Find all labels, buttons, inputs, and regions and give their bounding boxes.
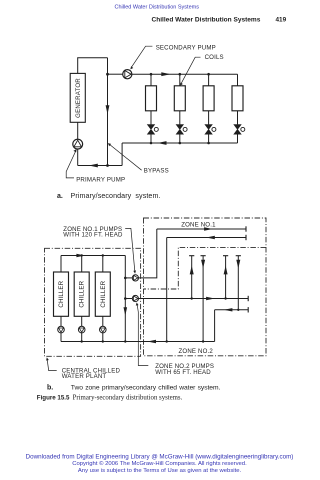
zone pump B <box>132 295 138 301</box>
coil branch 2 (wires, coil, three-way valve V2) <box>174 74 187 143</box>
node: supply tee coil 3 <box>207 73 210 76</box>
arrow: riser 2 flow down <box>201 260 205 269</box>
svg-text:Downloaded from Digital Engine: Downloaded from Digital Engineering Libr… <box>26 453 294 460</box>
arrow: plant supply flow right <box>76 254 85 257</box>
node: return header tee common pipe <box>124 340 126 342</box>
svg-text:Figure 15.5: Figure 15.5 <box>37 394 70 401</box>
svg-text:CHILLER: CHILLER <box>58 280 65 307</box>
wire: zone 1 return main <box>167 237 246 239</box>
wire: riser 3 top tick <box>223 255 228 257</box>
svg-text:Any use is subject to the Term: Any use is subject to the Terms of Use a… <box>78 468 242 474</box>
wire: zone 2 return main <box>215 309 249 311</box>
generator G <box>70 73 85 122</box>
svg-text:Primary/secondary system.: Primary/secondary system. <box>71 192 161 200</box>
chiller branch 3 (wires, chiller, pump) <box>95 256 110 342</box>
arrow: return header flow left <box>157 141 166 145</box>
node: return tee coil 3 <box>207 142 210 145</box>
wire: zone 2 riser 2 (return down) <box>202 256 204 342</box>
svg-text:ZONE NO.1: ZONE NO.1 <box>181 222 216 229</box>
arrow: zone 1 supply flow right <box>204 227 213 230</box>
zone no.1 boundary box (dash-dot) <box>144 218 267 356</box>
wire: plant return header <box>61 341 215 343</box>
node: supply header tee chiller 3 <box>102 254 104 256</box>
node: return header tee riser 2 <box>202 340 204 342</box>
node: return tee coil 1 <box>150 142 153 145</box>
arrow: bypass riser flow down <box>106 105 110 114</box>
node: riser tee pump A <box>124 277 127 280</box>
svg-text:SECONDARY PUMP: SECONDARY PUMP <box>156 44 216 51</box>
wire: zone 2 return drop to plant return <box>214 310 216 342</box>
label ZONE NO.1 PUMPS WITH 120 FT. HEAD <box>63 226 136 273</box>
central plant boundary box (dash-dot) <box>45 248 141 356</box>
arrow: bottom line flow left <box>89 164 98 168</box>
label COILS <box>180 54 224 86</box>
arrow: common pipe flow down <box>124 307 128 315</box>
secondary pump P2 <box>123 70 132 79</box>
svg-text:BYPASS: BYPASS <box>144 168 169 175</box>
label CENTRAL CHILLED WATER PLANT <box>46 357 120 379</box>
svg-text:Two zone primary/secondary chi: Two zone primary/secondary chilled water… <box>71 384 221 391</box>
node: return header tee chiller 3 <box>102 340 104 342</box>
zone no.2 boundary (dash-dot, top + left + jog) <box>144 247 267 289</box>
wire: zone 2 riser 3 (supply up) <box>225 256 227 299</box>
wire: bypass riser <box>107 58 109 166</box>
wire: pump A to zone1 supply riser <box>138 229 157 278</box>
svg-text:a.: a. <box>57 193 63 200</box>
wire: coil return header <box>122 142 237 144</box>
wire: zone 1 supply end tick <box>245 226 247 231</box>
node: supply tee coil 1 <box>150 73 153 76</box>
node: return header tee chiller 2 <box>81 340 83 342</box>
node: supply tee at riser <box>106 73 109 76</box>
svg-text:CHILLER: CHILLER <box>79 280 86 307</box>
svg-text:WITH 65 FT. HEAD: WITH 65 FT. HEAD <box>155 369 211 376</box>
primary pump P1 <box>73 139 83 149</box>
wire: riser 2 top tick <box>201 255 206 257</box>
wire: generator bottom to primary pump <box>77 122 79 139</box>
node: bottom line tee at riser <box>106 164 109 167</box>
chiller branch 1 (wires, chiller, pump) <box>54 256 69 342</box>
node: return header tee zone1 riser <box>166 340 168 342</box>
svg-text:PRIMARY PUMP: PRIMARY PUMP <box>76 177 125 184</box>
wire: zone pump A branch <box>125 277 132 279</box>
svg-text:ZONE NO.2: ZONE NO.2 <box>179 348 214 355</box>
node: zone2 supply tee riser 3 <box>224 297 226 299</box>
wire: secondary supply left segment <box>108 73 123 75</box>
wire: zone pump B branch <box>125 298 132 300</box>
wire: right leg coil return to bottom line <box>121 143 123 166</box>
label SECONDARY PUMP <box>130 44 216 69</box>
svg-text:GENERATOR: GENERATOR <box>75 78 82 118</box>
svg-text:COILS: COILS <box>205 54 224 61</box>
wire: riser 4 top tick <box>236 255 241 257</box>
zone pump A <box>132 275 138 281</box>
wire: zone 2 riser 4 (return down) <box>237 256 239 310</box>
svg-text:Chilled Water Distribution Sys: Chilled Water Distribution Systems <box>152 16 261 23</box>
wire: primary pump to bottom line <box>77 149 79 166</box>
arrow: zone 2 supply flow right <box>206 297 215 300</box>
coil branch 1 (wires, coil, three-way valve V1) <box>146 74 159 143</box>
svg-text:Chilled Water Distribution Sys: Chilled Water Distribution Systems <box>115 5 200 11</box>
label BYPASS <box>108 143 169 174</box>
wire: zone 2 return end tick <box>247 307 249 312</box>
svg-text:WITH 120 FT. HEAD: WITH 120 FT. HEAD <box>63 232 123 239</box>
arrow: plant return flow left <box>147 340 156 343</box>
wire: generator top to bypass riser <box>78 58 108 74</box>
wire: zone 1 return end tick <box>245 235 247 240</box>
arrow: riser 4 flow down <box>236 260 240 269</box>
wire: zone 1 return riser down <box>166 238 168 342</box>
wire: zone 1 supply main <box>157 228 246 230</box>
arrow: supply header flow right <box>161 72 170 76</box>
wire: zone 2 riser 1 (supply up) <box>191 256 193 299</box>
node: supply header tee chiller 2 <box>81 254 83 256</box>
wire: secondary supply header <box>132 73 238 75</box>
arrow: riser 1 flow up <box>190 266 194 275</box>
label PRIMARY PUMP <box>66 149 125 184</box>
node: riser tee pump B <box>124 297 127 300</box>
arrow: zone 2 return flow left <box>224 308 233 311</box>
node: return tee coil 2 <box>179 142 182 145</box>
wire: zone 2 supply main <box>138 298 248 300</box>
node: zone2 supply tee riser 1 <box>191 297 193 299</box>
svg-text:Copyright © 2006 The McGraw-Hi: Copyright © 2006 The McGraw-Hill Compani… <box>72 460 247 467</box>
chiller branch 2 (wires, chiller, pump) <box>74 256 89 342</box>
svg-text:b.: b. <box>47 385 53 392</box>
wire: riser 1 top tick <box>189 255 194 257</box>
node: zone2 return tee riser 4 <box>237 309 239 311</box>
wire: plant supply header <box>61 255 125 257</box>
wire: bottom return line <box>78 165 122 167</box>
svg-text:419: 419 <box>276 16 287 23</box>
wire: common pipe riser <box>124 256 126 342</box>
svg-text:WATER PLANT: WATER PLANT <box>62 373 107 380</box>
arrow: zone 1 return flow left <box>206 236 215 239</box>
coil branch 4 (wires, coil, three-way valve V4) <box>232 74 245 143</box>
svg-text:CHILLER: CHILLER <box>100 280 107 307</box>
wire: zone 2 supply end tick <box>247 296 249 301</box>
node: supply tee coil 2 <box>179 73 182 76</box>
coil branch 3 (wires, coil, three-way valve V3) <box>203 74 216 143</box>
label ZONE NO.2 PUMPS WITH 65 FT. HEAD <box>136 302 214 375</box>
svg-text:Primary-secondary distribution: Primary-secondary distribution systems. <box>73 394 183 401</box>
arrow: riser 3 flow up <box>224 266 228 275</box>
